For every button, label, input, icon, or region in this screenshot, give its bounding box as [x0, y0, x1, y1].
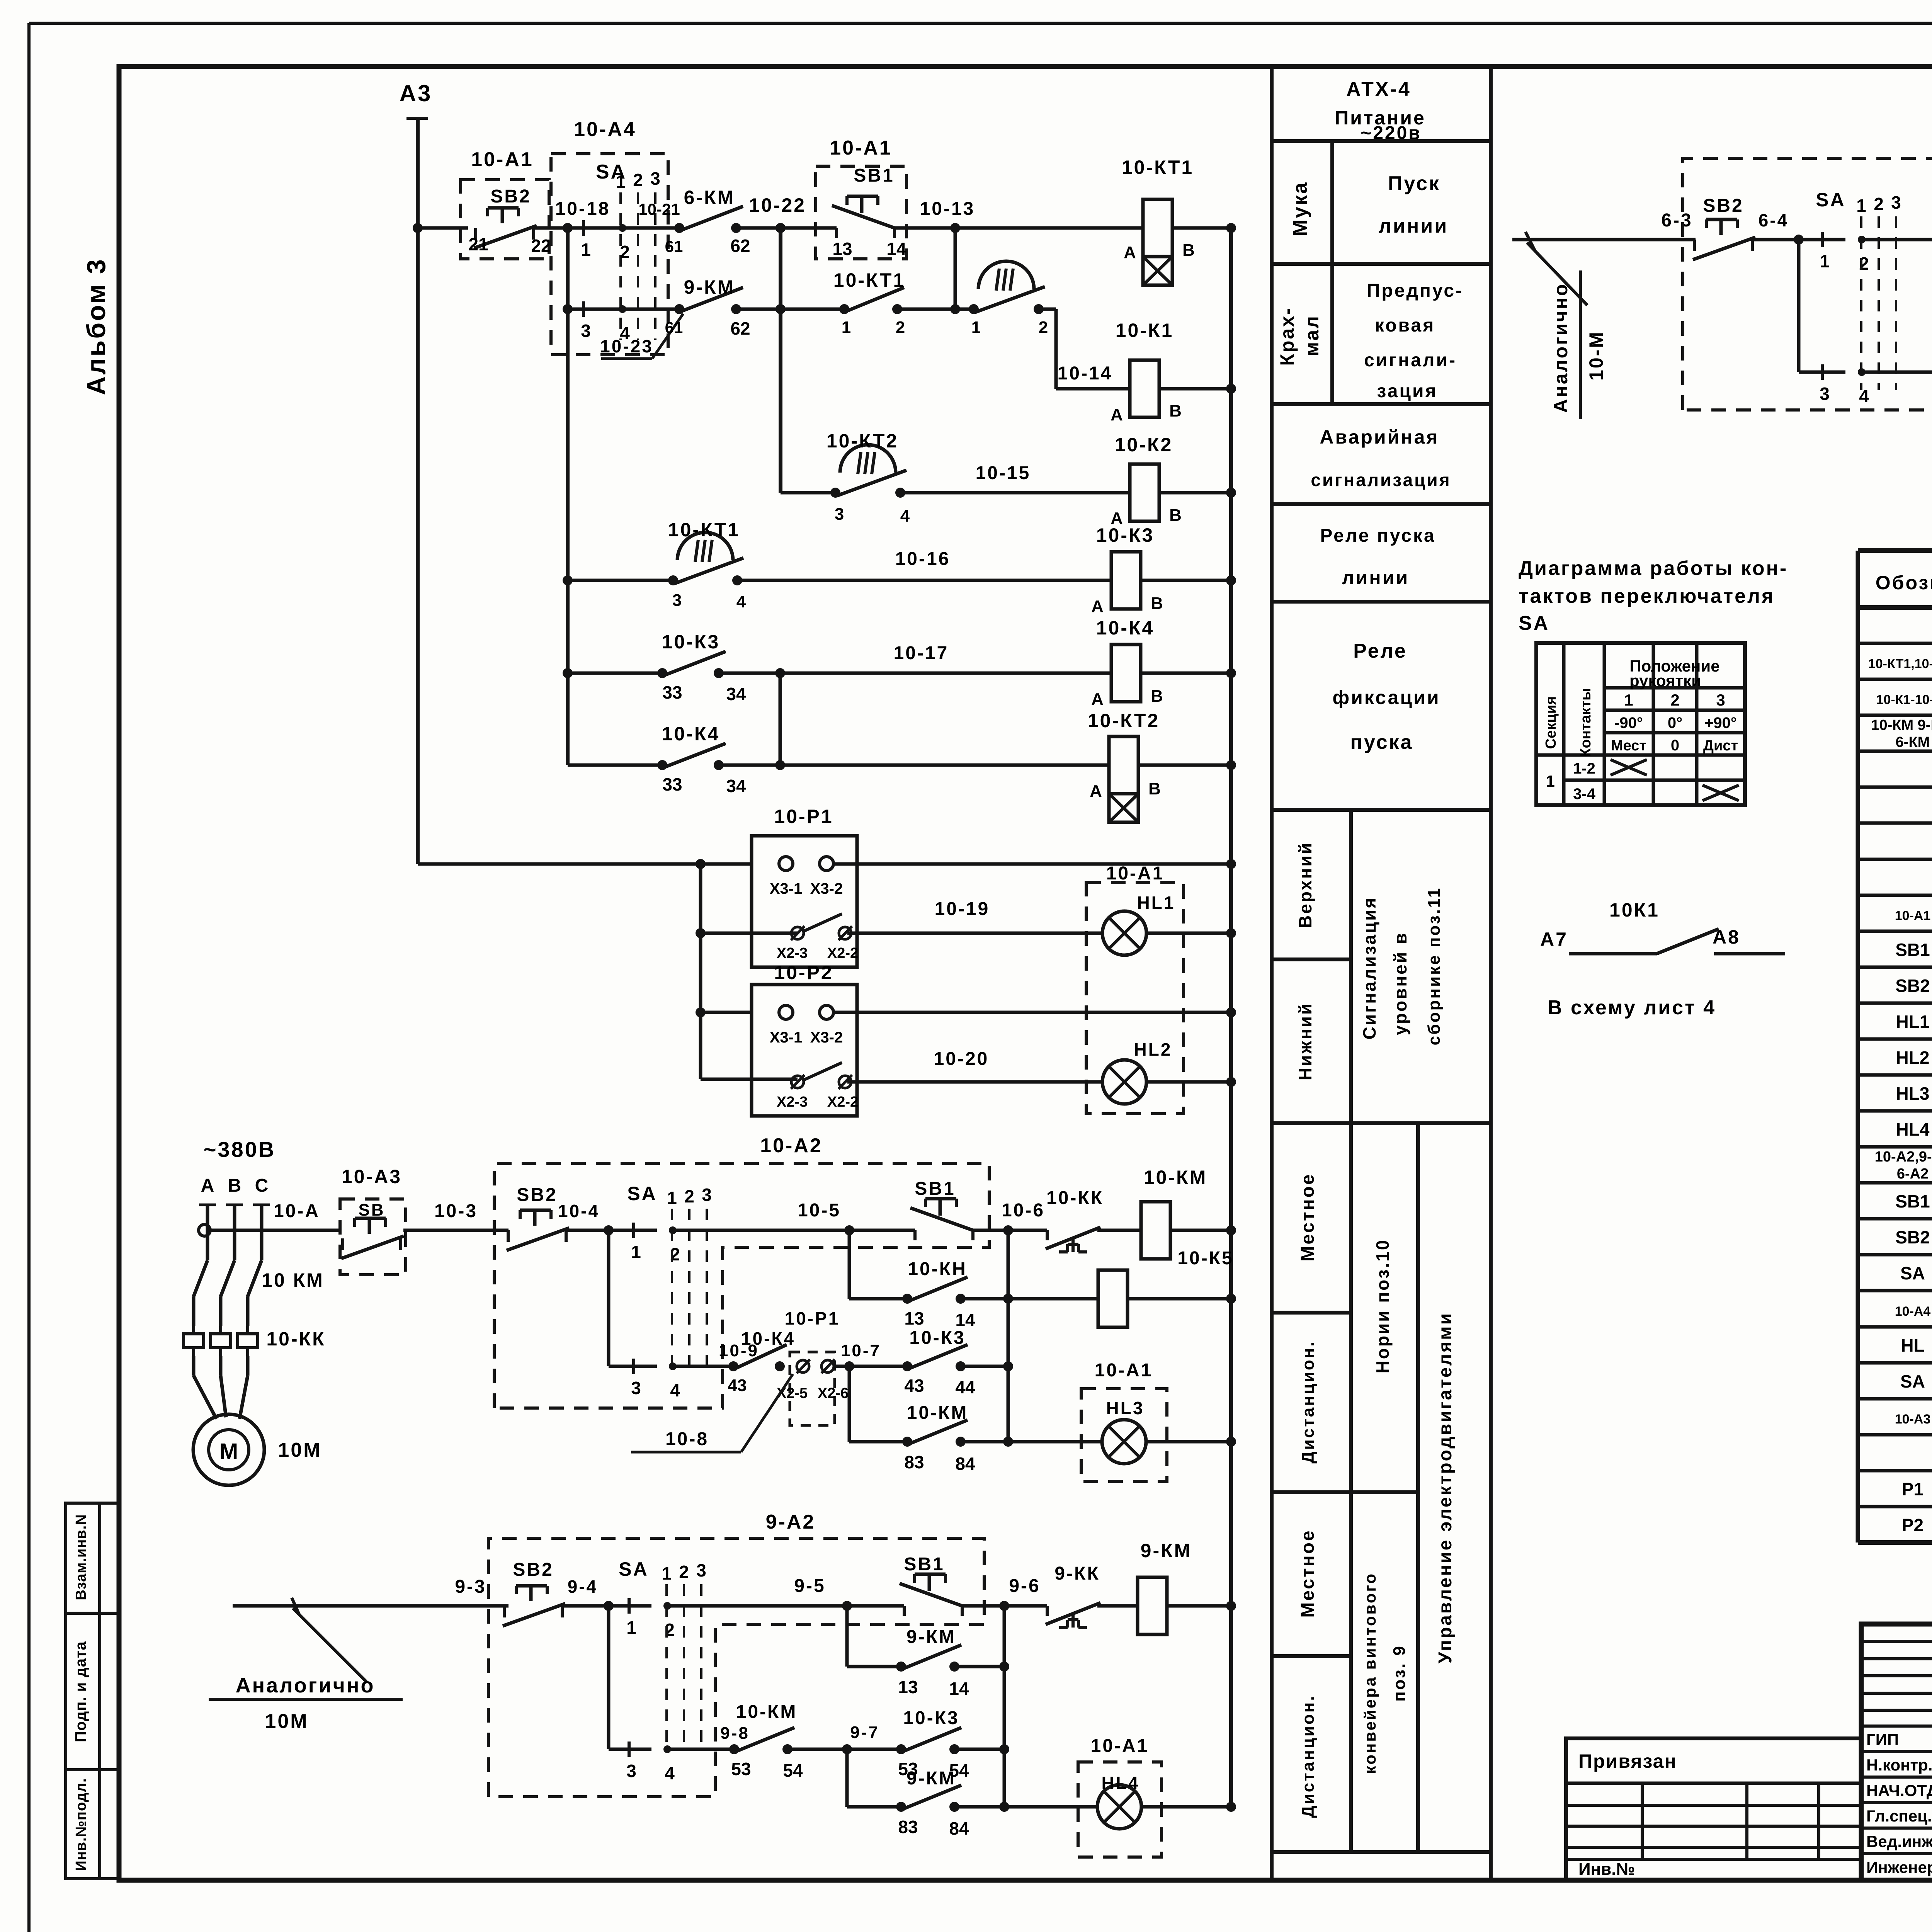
- junction 10-18: [563, 223, 573, 233]
- wire X2-3 P1: [701, 932, 798, 935]
- svg-text:83: 83: [904, 1452, 924, 1472]
- motor leads: [192, 1356, 196, 1376]
- svg-text:10-К4: 10-К4: [662, 723, 720, 745]
- svg-text:10-20: 10-20: [934, 1049, 989, 1069]
- svg-text:10-17: 10-17: [894, 643, 949, 663]
- svg-text:HL4: HL4: [1102, 1773, 1140, 1793]
- sheet outer border: [29, 22, 1932, 25]
- svg-text:10-8: 10-8: [665, 1429, 709, 1449]
- svg-text:4: 4: [1859, 386, 1869, 406]
- svg-text:SA: SA: [1816, 189, 1845, 211]
- svg-text:Реле пуска: Реле пуска: [1320, 526, 1435, 546]
- wire rung HL2: [847, 1080, 1102, 1084]
- contact 9-KM 83-84: [847, 1805, 901, 1809]
- svg-text:3: 3: [835, 505, 844, 524]
- timed contact 10-KT1 (timed contact): [969, 304, 979, 314]
- svg-text:Р2: Р2: [1902, 1515, 1923, 1535]
- svg-text:0: 0: [1671, 737, 1679, 754]
- svg-text:1: 1: [971, 318, 981, 337]
- svg-text:X3-1: X3-1: [770, 1029, 803, 1046]
- svg-text:SA: SA: [1900, 1371, 1925, 1391]
- lamp HL4 (signal lamp): [1097, 1785, 1141, 1829]
- svg-text:HL2: HL2: [1896, 1048, 1930, 1068]
- wire rung1 SA to 6-KM contact: [622, 226, 679, 230]
- SA contact 1-2 (9-A2): [628, 1598, 631, 1614]
- wire rung1 L1: [418, 226, 468, 230]
- svg-text:10-К3: 10-К3: [909, 1328, 965, 1348]
- N return bus (right): [1229, 228, 1233, 1807]
- svg-text:Вед.инж: Вед.инж: [1866, 1832, 1932, 1850]
- svg-text:А: А: [1124, 243, 1136, 262]
- svg-text:линии: линии: [1342, 567, 1409, 588]
- wire rung 10-17: [568, 672, 662, 675]
- svg-text:6-3: 6-3: [1661, 210, 1692, 231]
- svg-text:HL: HL: [1901, 1335, 1924, 1355]
- svg-text:3: 3: [581, 321, 591, 341]
- svg-text:4: 4: [900, 507, 910, 526]
- svg-text:10-А: 10-А: [274, 1201, 320, 1221]
- wire 10-A from phase A: [199, 1225, 210, 1236]
- svg-text:10-КК: 10-КК: [266, 1328, 325, 1350]
- svg-text:10-К3: 10-К3: [903, 1708, 959, 1728]
- svg-text:10-КМ: 10-КМ: [907, 1403, 968, 1423]
- svg-text:HL4: HL4: [1896, 1119, 1930, 1139]
- margin stamp boxes: [66, 1503, 100, 1879]
- svg-text:1: 1: [581, 240, 591, 260]
- svg-text:14: 14: [886, 239, 906, 259]
- wire rung2 to mid bus: [736, 308, 844, 311]
- SA 3-4 branch of 10-A2: [607, 1230, 611, 1366]
- wire A3 bus corner to sensors: [418, 862, 752, 866]
- phase tap: [226, 1204, 243, 1206]
- relay coil 10-K2 (coil): [1130, 464, 1159, 521]
- relay contact 10-K4 43 (NO contact): [728, 1361, 738, 1371]
- svg-text:Нижний: Нижний: [1295, 1002, 1315, 1080]
- svg-text:10-А2: 10-А2: [760, 1134, 823, 1157]
- svg-text:Аналогично: Аналогично: [236, 1674, 375, 1697]
- auxiliary contact 9-KM 61-62 (NO contact): [674, 304, 684, 314]
- svg-text:1: 1: [631, 1242, 641, 1262]
- svg-text:Местное: Местное: [1298, 1173, 1318, 1261]
- svg-text:2: 2: [633, 170, 643, 190]
- SA diagram table: [1536, 643, 1745, 805]
- vertical 9-7 down: [845, 1749, 849, 1807]
- svg-text:10-КТ2: 10-КТ2: [827, 430, 898, 452]
- phase tap: [253, 1204, 270, 1206]
- svg-text:1: 1: [616, 172, 626, 192]
- relay contact 10-KN 13-14 (NO contact): [902, 1294, 912, 1304]
- level sensor 10-P1: [752, 836, 857, 967]
- svg-text:B: B: [1169, 506, 1182, 525]
- svg-text:3: 3: [672, 591, 682, 610]
- wire rung HL4: [954, 1805, 1097, 1809]
- svg-text:Реле: Реле: [1353, 640, 1407, 662]
- SA contact 3-4 (6-A2): [1821, 364, 1824, 380]
- SA contact 3-4 (10-A2): [632, 1359, 635, 1374]
- coil 9-KM: [1097, 1604, 1138, 1608]
- svg-text:9-КМ: 9-КМ: [684, 276, 735, 298]
- wire rung HL1: [847, 932, 1102, 935]
- svg-text:43: 43: [904, 1376, 924, 1396]
- svg-text:SB1: SB1: [1895, 1191, 1930, 1211]
- svg-text:Дист: Дист: [1703, 738, 1738, 754]
- svg-text:мал: мал: [1301, 315, 1323, 356]
- svg-text:3: 3: [1891, 192, 1901, 213]
- svg-text:B: B: [1148, 779, 1161, 798]
- wire X2-3 P2 corner: [701, 1078, 798, 1081]
- auxiliary contact 6-KM 61-62 (NO contact): [674, 223, 684, 233]
- svg-text:тактов переключателя: тактов переключателя: [1519, 585, 1775, 607]
- svg-text:9-КМ: 9-КМ: [906, 1768, 956, 1789]
- svg-text:10-6: 10-6: [1002, 1200, 1045, 1221]
- svg-text:X2-2: X2-2: [827, 945, 858, 961]
- svg-text:пуска: пуска: [1350, 731, 1413, 753]
- label column grid: [1270, 66, 1274, 1880]
- wire 6-4: [1753, 238, 1795, 241]
- svg-text:10-КТ2: 10-КТ2: [1088, 710, 1160, 731]
- svg-text:10-А1: 10-А1: [1895, 908, 1931, 923]
- svg-text:10-А1: 10-А1: [471, 148, 534, 171]
- wire 10-6: [973, 1229, 1047, 1232]
- svg-text:10-КТ1,10-КТ2: 10-КТ1,10-КТ2: [1868, 656, 1932, 671]
- svg-text:3: 3: [1820, 384, 1830, 404]
- svg-text:9-КМ: 9-КМ: [906, 1627, 956, 1647]
- svg-text:9-7: 9-7: [850, 1723, 879, 1742]
- svg-text:10-15: 10-15: [976, 463, 1031, 483]
- contactor coil 10-KM (coil): [1141, 1202, 1170, 1259]
- svg-text:10-А1: 10-А1: [1091, 1736, 1149, 1756]
- svg-text:С: С: [255, 1175, 269, 1196]
- svg-text:10-16: 10-16: [895, 549, 951, 569]
- svg-text:Управление электродвигателям: Управление электродвигателями: [1435, 1312, 1456, 1663]
- contactor main contacts 10-KM: [194, 1260, 207, 1296]
- mid bus 10-22 down: [779, 228, 782, 493]
- relay contact 10-K4 33-34 (NO contact): [657, 760, 667, 770]
- svg-text:Обозн.: Обозн.: [1876, 572, 1932, 594]
- svg-text:HL1: HL1: [1137, 893, 1175, 913]
- svg-text:SB2: SB2: [1895, 1227, 1930, 1247]
- svg-text:SB1: SB1: [915, 1179, 955, 1199]
- svg-text:1: 1: [842, 318, 851, 337]
- svg-text:9-8: 9-8: [720, 1724, 750, 1743]
- sensor feed bus: [699, 864, 702, 1079]
- svg-text:10-Р2: 10-Р2: [774, 962, 833, 983]
- relay contact 10-K3 43-44 (NO contact): [902, 1361, 912, 1371]
- svg-text:Альбом 3: Альбом 3: [82, 258, 111, 395]
- svg-text:10-К3: 10-К3: [1096, 524, 1155, 546]
- SA contact 1-2 rung1: [582, 220, 585, 236]
- svg-text:конвейера винтового: конвейера винтового: [1361, 1572, 1379, 1774]
- svg-text:+90°: +90°: [1704, 714, 1737, 731]
- svg-text:X2-3: X2-3: [777, 1094, 808, 1110]
- svg-text:9-КК: 9-КК: [1054, 1563, 1100, 1584]
- svg-text:зация: зация: [1377, 381, 1438, 401]
- svg-text:X2-6: X2-6: [818, 1385, 849, 1401]
- relay coil 10-K3 (coil): [1111, 552, 1141, 609]
- svg-text:Мест: Мест: [1611, 738, 1646, 754]
- contact 9-KM 13-14: [847, 1665, 901, 1668]
- svg-text:10-3: 10-3: [434, 1201, 478, 1221]
- svg-text:В схему лист 4: В схему лист 4: [1548, 997, 1716, 1019]
- X mark 1-2 Mest: [1611, 760, 1647, 775]
- svg-text:10-19: 10-19: [935, 899, 990, 919]
- terminal box 10-P1 (X2-5 X2-6): [790, 1352, 835, 1425]
- button SB2 (6-A2) (NC push-button): [1693, 240, 1696, 251]
- lamp HL3 (signal lamp): [1102, 1420, 1146, 1464]
- svg-text:10-КМ: 10-КМ: [736, 1702, 798, 1722]
- parts list table grid: [1856, 551, 1860, 1543]
- wire rung2: [568, 308, 679, 311]
- control post box 9-A2 (stepped dashed outline): [488, 1538, 984, 1797]
- thermal elements 10-KK: [184, 1326, 204, 1356]
- svg-text:Инженер: Инженер: [1866, 1858, 1932, 1876]
- svg-text:Местное: Местное: [1298, 1529, 1318, 1617]
- vertical 10-7 to 83 rung: [848, 1366, 851, 1442]
- svg-text:SB2: SB2: [1895, 976, 1930, 996]
- right bypass vertical 10-6 down: [1007, 1230, 1010, 1442]
- switch SA of 10-A4 (SA switch dashed ties): [619, 192, 622, 340]
- svg-text:10-КТ1: 10-КТ1: [1122, 156, 1194, 178]
- svg-text:SB2: SB2: [490, 186, 531, 207]
- wire 10-3: [403, 1229, 509, 1232]
- lamp box 10-A1 (HL3): [1081, 1389, 1167, 1481]
- svg-text:Дистанцион.: Дистанцион.: [1299, 1340, 1318, 1463]
- svg-text:А: А: [201, 1175, 214, 1196]
- svg-text:SB2: SB2: [1703, 196, 1743, 216]
- wire X3-2 P2 to N bus: [833, 1011, 1231, 1014]
- svg-text:1: 1: [1546, 772, 1554, 790]
- svg-text:Взам.инв.N: Взам.инв.N: [73, 1514, 89, 1600]
- svg-text:1: 1: [662, 1563, 672, 1583]
- svg-text:SA: SA: [1519, 612, 1549, 634]
- relay contact 10-KT1 1-2 (NO contact): [839, 304, 849, 314]
- level sensor 10-P2: [752, 985, 857, 1116]
- SA 3-4 branch of 9-A2: [607, 1606, 611, 1749]
- svg-text:10-К1: 10-К1: [1116, 320, 1174, 341]
- switch SA of 9-A2 (SA switch dashed ties): [665, 1584, 668, 1750]
- button SB1 (9-A2) (NO push-button): [903, 1606, 906, 1616]
- svg-text:10-К4: 10-К4: [1096, 617, 1155, 639]
- svg-text:SA: SA: [627, 1183, 657, 1204]
- wire 6-5: [1862, 238, 1932, 241]
- svg-text:10-7: 10-7: [841, 1341, 881, 1360]
- wire 10-5 to SB1: [673, 1229, 835, 1232]
- svg-text:10-К2: 10-К2: [1115, 434, 1173, 456]
- svg-text:HL2: HL2: [1134, 1039, 1172, 1060]
- svg-text:X2-3: X2-3: [777, 945, 808, 961]
- contactor coil 9-KM (coil): [1138, 1577, 1167, 1634]
- svg-text:21: 21: [468, 234, 488, 254]
- svg-text:54: 54: [783, 1760, 803, 1781]
- svg-text:10-К1-10-К5: 10-К1-10-К5: [1876, 692, 1932, 707]
- svg-text:10-Р1: 10-Р1: [785, 1308, 840, 1328]
- svg-text:10-К3: 10-К3: [662, 631, 720, 653]
- control post box 6-A2 (stepped dashed outline): [1683, 158, 1932, 410]
- svg-text:10М: 10М: [278, 1439, 321, 1461]
- svg-text:3-4: 3-4: [1573, 786, 1596, 803]
- svg-text:10 КМ: 10 КМ: [262, 1269, 324, 1291]
- svg-text:сигнализация: сигнализация: [1311, 470, 1451, 490]
- svg-text:9-А2: 9-А2: [766, 1511, 816, 1533]
- svg-text:А: А: [1091, 597, 1104, 616]
- thermal contact 9-KK (thermal overload NC contact): [1046, 1606, 1049, 1616]
- wire to SA: [605, 1229, 657, 1232]
- svg-text:9-3: 9-3: [455, 1577, 486, 1597]
- title block small rows: [1861, 1640, 1932, 1643]
- svg-text:10-КК: 10-КК: [1046, 1188, 1104, 1208]
- svg-text:Инв.№: Инв.№: [1578, 1860, 1635, 1879]
- svg-text:Пуск: Пуск: [1388, 172, 1440, 195]
- svg-text:~380В: ~380В: [204, 1137, 276, 1162]
- svg-text:Верхний: Верхний: [1295, 842, 1315, 928]
- time relay coil 10-KT1 (coil): [1143, 199, 1172, 257]
- lamp box 10-A1 (HL4): [1078, 1762, 1162, 1857]
- lamp box 10-A1 (HL1 HL2): [1086, 883, 1184, 1114]
- wire rung1 to node 10-18: [534, 226, 627, 230]
- svg-text:10М: 10М: [265, 1710, 308, 1733]
- svg-text:84: 84: [955, 1454, 975, 1474]
- svg-text:Р1: Р1: [1902, 1479, 1923, 1499]
- svg-text:10-А1: 10-А1: [1095, 1360, 1153, 1381]
- svg-text:Н.контр.: Н.контр.: [1866, 1756, 1932, 1774]
- svg-text:10-5: 10-5: [798, 1200, 841, 1221]
- svg-text:6-КМ: 6-КМ: [1896, 734, 1930, 750]
- svg-text:3: 3: [696, 1560, 706, 1580]
- auxiliary contact 10-KM 53-54 (NO contact): [729, 1744, 739, 1754]
- svg-text:SA: SA: [1900, 1263, 1925, 1283]
- relay contact 10-K3 33-34 (NO contact): [657, 668, 667, 678]
- SA contact 1-2 (6-A2): [1821, 232, 1824, 247]
- SA contact 3-4 rung2: [582, 301, 585, 317]
- svg-text:А: А: [1091, 690, 1104, 709]
- SB1 bypass vertical: [848, 1230, 851, 1299]
- svg-text:Аварийная: Аварийная: [1320, 426, 1439, 448]
- svg-text:Нории поз.10: Нории поз.10: [1372, 1239, 1393, 1374]
- svg-text:6-4: 6-4: [1759, 210, 1789, 230]
- svg-text:10-А1: 10-А1: [1106, 863, 1165, 884]
- svg-text:3: 3: [631, 1378, 641, 1398]
- svg-text:B: B: [1182, 241, 1195, 260]
- SB1 bypass vertical 9: [845, 1606, 849, 1667]
- switch SA of 10-A2 (SA switch dashed ties): [671, 1209, 673, 1376]
- SA 3-4 branch of 6-A2: [1797, 240, 1801, 372]
- svg-text:1: 1: [626, 1617, 636, 1638]
- wire rung2: [897, 308, 974, 311]
- svg-text:Гл.спец.: Гл.спец.: [1866, 1807, 1932, 1825]
- svg-text:53: 53: [731, 1759, 751, 1779]
- svg-text:10-КТ1: 10-КТ1: [668, 519, 740, 541]
- svg-text:10-А1: 10-А1: [830, 137, 892, 159]
- svg-text:10-КТ1: 10-КТ1: [833, 269, 905, 291]
- svg-text:13: 13: [904, 1308, 924, 1328]
- button SB1 start (NO push-button): [835, 228, 838, 238]
- svg-text:10-22: 10-22: [749, 194, 806, 216]
- svg-text:6-А2: 6-А2: [1897, 1166, 1929, 1182]
- svg-text:рукоятки: рукоятки: [1629, 672, 1701, 690]
- wire rung1 node 10-22: [736, 226, 837, 230]
- svg-text:13: 13: [898, 1677, 918, 1697]
- phase tap: [199, 1204, 216, 1206]
- svg-text:14: 14: [955, 1310, 975, 1330]
- svg-text:X2-2: X2-2: [827, 1094, 858, 1110]
- wire 10-7 node: [835, 1365, 907, 1368]
- svg-text:Крах-: Крах-: [1276, 306, 1298, 366]
- wire 9-4: [563, 1604, 605, 1608]
- control post box 10-A4: [551, 154, 668, 355]
- svg-text:2: 2: [620, 242, 630, 262]
- svg-text:уровней в: уровней в: [1390, 932, 1410, 1035]
- svg-text:1: 1: [667, 1188, 677, 1208]
- svg-text:10-4: 10-4: [558, 1201, 600, 1221]
- SA contact 3-4 (9-A2): [628, 1742, 631, 1757]
- svg-text:84: 84: [949, 1818, 969, 1838]
- svg-text:SA: SA: [619, 1558, 648, 1580]
- button SB2 stop (NC push-button): [474, 228, 477, 240]
- svg-text:Секция: Секция: [1543, 696, 1559, 749]
- wire rail 6-3: [1512, 238, 1696, 241]
- svg-text:Инв.№подл.: Инв.№подл.: [73, 1778, 89, 1871]
- svg-text:Сигнализация: Сигнализация: [1359, 896, 1379, 1040]
- svg-text:фиксации: фиксации: [1332, 687, 1440, 708]
- contact 10-KM 83-84: [849, 1440, 907, 1444]
- svg-text:4: 4: [736, 592, 746, 611]
- svg-text:Предпус-: Предпус-: [1367, 281, 1463, 301]
- svg-text:НАЧ.ОТД.: НАЧ.ОТД.: [1866, 1781, 1932, 1799]
- wire corner to rung 10-14: [1039, 308, 1056, 311]
- svg-text:33: 33: [662, 682, 682, 702]
- svg-text:33: 33: [662, 774, 682, 794]
- wire X3-2 P1 to N bus: [833, 862, 1231, 866]
- svg-text:А: А: [1111, 405, 1123, 424]
- svg-text:3: 3: [1716, 691, 1725, 709]
- svg-text:X3-2: X3-2: [810, 880, 843, 897]
- svg-text:сборнике поз.11: сборнике поз.11: [1425, 887, 1444, 1046]
- svg-text:2: 2: [684, 1186, 694, 1206]
- relay coil 10-K5 (coil): [1098, 1270, 1128, 1327]
- leader 10-8: [631, 1451, 741, 1454]
- SA contact 1-2 (10-A2): [632, 1223, 635, 1238]
- svg-text:2: 2: [1874, 194, 1884, 214]
- svg-text:ковая: ковая: [1375, 315, 1435, 336]
- svg-text:2: 2: [896, 318, 905, 337]
- svg-text:10-КМ: 10-КМ: [1144, 1167, 1207, 1188]
- svg-text:B: B: [1151, 687, 1163, 706]
- svg-text:А: А: [1090, 782, 1102, 801]
- svg-text:2: 2: [1039, 318, 1048, 337]
- lamp HL2 (signal lamp): [1102, 1060, 1146, 1104]
- control post box 10-A1 (SB1): [816, 166, 906, 259]
- control post box 10-A2 (stepped dashed outline): [494, 1163, 989, 1408]
- svg-text:10-18: 10-18: [555, 199, 611, 219]
- relay coil 10-K4 (coil): [1111, 645, 1141, 702]
- svg-text:10-А3: 10-А3: [342, 1166, 402, 1187]
- svg-text:3: 3: [650, 168, 660, 189]
- svg-text:10-К5: 10-К5: [1177, 1248, 1233, 1269]
- wire rung 10-15: [781, 491, 835, 495]
- svg-text:10К1: 10К1: [1609, 899, 1660, 921]
- svg-text:10-А4: 10-А4: [1895, 1304, 1931, 1319]
- svg-text:2: 2: [1670, 691, 1679, 709]
- switch SA of 6-A2 (SA switch dashed ties): [1860, 216, 1862, 390]
- svg-text:1: 1: [1820, 251, 1830, 271]
- svg-text:9-4: 9-4: [568, 1577, 598, 1597]
- svg-text:34: 34: [726, 684, 746, 704]
- svg-text:62: 62: [730, 236, 750, 256]
- wire rail 9-3: [233, 1604, 509, 1608]
- timed contact 10-KT2 (timed contact): [830, 488, 840, 498]
- svg-text:4: 4: [665, 1763, 675, 1783]
- X mark 3-4 Dist: [1702, 785, 1739, 801]
